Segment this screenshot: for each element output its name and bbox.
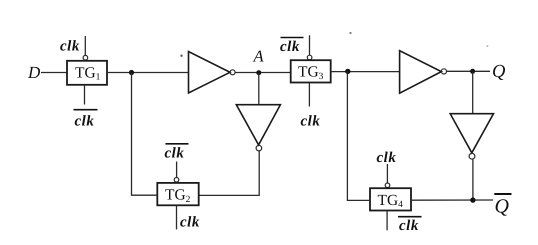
wire D to TG1 (41, 72, 67, 74)
wire TG3 to inverter U3 (331, 71, 400, 73)
transmission gate TG2 (157, 183, 198, 205)
wire TG1 to inverter U1 (107, 72, 189, 74)
wire TG4 left to node Y feedback (347, 71, 370, 200)
wire TG2 left to node X feedback (132, 73, 158, 196)
bubble at TG2 top (174, 178, 179, 183)
svg-text:A: A (253, 46, 265, 65)
node Qbar label (494, 194, 511, 218)
junction node Y after TG3 (345, 69, 350, 74)
junction node Qbar (470, 197, 475, 202)
wire U2 output down to TG2 (199, 151, 260, 195)
svg-text:clk: clk (301, 114, 321, 130)
junction node A (256, 70, 261, 75)
inverter U4 (downward) (450, 114, 493, 153)
wire U1 to TG3 (235, 72, 291, 74)
wire node Q down to inverter U4 (472, 71, 474, 113)
svg-text:clk: clk (280, 39, 300, 55)
wire U4 output down to node Qbar (472, 159, 474, 200)
clkbar label above TG2 (165, 144, 189, 162)
svg-text:clk: clk (165, 146, 185, 162)
svg-text:clk: clk (75, 114, 95, 130)
svg-text:clk: clk (180, 215, 200, 231)
bubble U1 output (230, 70, 235, 75)
wire node A down to inverter U2 (258, 73, 260, 105)
wire clk into TG1 top (84, 36, 86, 55)
bubble U3 output (441, 69, 446, 74)
clkbar label below TG4 (398, 217, 422, 234)
svg-text:clk: clk (377, 150, 397, 166)
svg-text:clk: clk (399, 218, 419, 234)
inverter U1 (189, 52, 231, 94)
bubble U4 output (469, 153, 475, 159)
junction node Q (470, 69, 475, 74)
scan speck (486, 45, 488, 47)
clkbar label above TG3 (280, 38, 304, 56)
transmission gate TG4 (370, 188, 411, 210)
svg-text:clk: clk (60, 39, 80, 55)
wire TG2 bottom to clk (176, 205, 178, 229)
bubble at TG1 top (83, 55, 88, 60)
svg-text:Q: Q (492, 62, 506, 82)
wire U3 to Q (447, 70, 491, 72)
wire clk into TG4 top (386, 164, 388, 183)
inverter U3 (400, 51, 442, 93)
wire clkbar into TG2 top (176, 162, 178, 178)
bubble at TG4 top (385, 183, 390, 188)
svg-text:D: D (27, 63, 41, 82)
svg-text:Q: Q (495, 196, 510, 218)
transmission gate TG3 (291, 60, 331, 82)
wire clkbar into TG3 top (309, 35, 311, 55)
wire TG1 bottom to clkbar (84, 85, 86, 105)
clkbar label below TG1 (74, 110, 98, 130)
wire TG4 bottom to clkbar (386, 211, 388, 231)
scan speck (349, 32, 351, 34)
inverter U2 (downward) (236, 105, 280, 145)
wire TG4 right to node Qbar (411, 199, 493, 201)
bubble U2 output (256, 145, 262, 151)
bubble at TG3 top (307, 55, 312, 60)
scan speck (180, 55, 182, 57)
wire TG3 bottom to clk (308, 83, 310, 107)
transmission gate TG1 (67, 61, 107, 85)
junction node X after TG1 (129, 70, 134, 75)
